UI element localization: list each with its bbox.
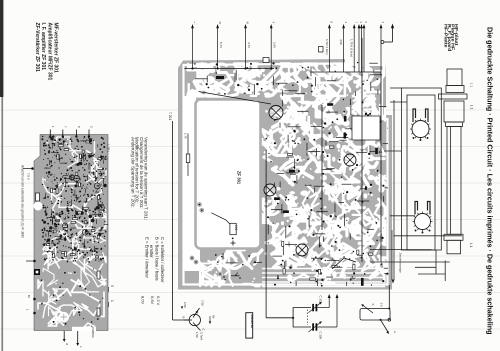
svg-text:Verandering van de spanning aa: Verandering van de spanning aan T 201:	[144, 137, 149, 220]
transistor outline on pcb at 270,190	[264, 184, 276, 196]
test point arrow 8 0,7V (1 kHz)	[328, 28, 330, 72]
trimmer capacitor C 301	[312, 304, 314, 311]
svg-text:141: 141	[234, 225, 238, 231]
test point arrow M 5,7V	[217, 28, 219, 69]
test point arrow 3	[358, 28, 360, 72]
svg-text:F6950A: F6950A	[91, 327, 95, 338]
tuning capacitor rotor L1	[415, 214, 431, 230]
fold artifact lines	[0, 109, 500, 111]
test point arrow 7 1,75 V (1 kHz)	[353, 28, 355, 72]
svg-text:ZW312 6A: ZW312 6A	[250, 315, 254, 330]
svg-text:1 1: 1 1	[470, 83, 474, 88]
bent arrow right	[392, 28, 394, 42]
svg-text:Ansicht von der Leiterseite au: Ansicht von der Leiterseite aus gesehen …	[21, 164, 25, 238]
svg-text:M: M	[246, 22, 250, 24]
svg-text:C 308: C 308	[319, 332, 323, 340]
black resistor bar top	[216, 76, 224, 79]
test point arrow =	[192, 28, 194, 69]
wire from pcb to cap box	[265, 270, 267, 318]
svg-text:T 201: T 201	[168, 112, 172, 120]
svg-text:1,75: 1,75	[183, 133, 187, 139]
svg-text:C = Kollektor / collecteur: C = Kollektor / collecteur	[160, 237, 165, 283]
small PCB left edge pads	[23, 168, 33, 170]
test point arrow 2	[380, 28, 382, 72]
svg-text:3: 3	[110, 285, 114, 287]
resistor on left margin of main pcb	[187, 134, 189, 177]
D301 box	[263, 58, 269, 63]
svg-text:L 1: L 1	[470, 105, 474, 110]
C301/C308 trimmer box	[293, 308, 311, 327]
svg-text:1,5V: 1,5V	[195, 332, 199, 338]
svg-text:I. F. amplifier ZF 301: I. F. amplifier ZF 301	[40, 23, 46, 71]
svg-text:5,7V: 5,7V	[219, 42, 223, 48]
svg-text:S: S	[371, 304, 375, 306]
long vertical overlay wires	[265, 150, 267, 270]
small PCB bottom arrows	[63, 331, 65, 340]
svg-text:8,0V: 8,0V	[141, 296, 146, 305]
test point arrow M 4,7V	[245, 28, 247, 69]
scan edge left	[0, 0, 3, 97]
small PCB right edge resistors	[97, 271, 100, 279]
svg-text:Modification of tension for T: Modification of tension for T 201:	[135, 137, 140, 203]
pin 8 of ZF301 board	[75, 130, 77, 137]
svg-text:B = Basis / base / basis: B = Basis / base / basis	[155, 237, 160, 281]
svg-text:L 1: L 1	[469, 243, 473, 248]
mechanical tuning drawing	[370, 69, 467, 281]
small box component near 329 arrow	[319, 47, 324, 53]
svg-text:M: M	[218, 22, 222, 24]
svg-text:MF-versterker ZF 301: MF-versterker ZF 301	[53, 23, 59, 74]
svg-text:0,5V: 0,5V	[183, 302, 187, 308]
svg-text:U: U	[65, 343, 69, 345]
switch S301	[360, 309, 390, 321]
svg-text:4,7V: 4,7V	[247, 42, 251, 48]
svg-text:B: B	[182, 317, 186, 319]
test point arrow	[361, 28, 363, 72]
svg-text:7,5 V: 7,5 V	[27, 173, 31, 180]
svg-text:Die gedruckte Schaltung · Prin: Die gedruckte Schaltung · Printed Circui…	[486, 27, 495, 335]
transistor outline on pcb at 302,250	[296, 244, 308, 256]
small PCB ZF301 board	[34, 135, 108, 338]
svg-text:1,75 V (1 kHz): 1,75 V (1 kHz)	[350, 39, 354, 57]
long wire left of main pcb	[172, 121, 174, 320]
bottom schematic: transistor T201	[189, 314, 200, 325]
test point arrow 5	[363, 28, 365, 72]
double line down arrow + label	[391, 230, 393, 280]
svg-text:0,3 V: 0,3 V	[156, 296, 161, 306]
tuning capacitor rotor L1	[412, 121, 429, 138]
svg-text:1-6: 1-6	[380, 303, 384, 307]
svg-text:emitter: emitter	[149, 245, 154, 258]
svg-text:0,7V (1 kHz): 0,7V (1 kHz)	[325, 39, 329, 55]
test point arrow 4 3,4V	[270, 28, 272, 69]
svg-text:5,6V: 5,6V	[150, 296, 155, 305]
pin 2 of ZF301 board	[88, 130, 90, 137]
pin 7 of ZF301 board	[62, 130, 64, 137]
svg-text:ZF-Verstärker ZF 301: ZF-Verstärker ZF 301	[34, 23, 40, 73]
svg-text:C: C	[202, 329, 206, 331]
svg-text:C 301: C 301	[319, 296, 323, 304]
test point arrow 1 4,5V	[343, 28, 345, 72]
svg-text:Amplificateur MF/ZF 301: Amplificateur MF/ZF 301	[46, 23, 52, 81]
sloped pointer line	[199, 92, 272, 105]
main PCB	[178, 59, 392, 290]
white window component top right	[352, 116, 380, 140]
svg-text:L 201: L 201	[107, 145, 111, 153]
svg-text:0,7mA: 0,7mA	[200, 332, 204, 340]
pin 1 of ZF301 board	[49, 130, 51, 137]
ZW312 6A box	[246, 313, 253, 338]
svg-text:ZF 301: ZF 301	[237, 171, 242, 185]
svg-text:Changement de la tension à T 2: Changement de la tension à T 201:	[139, 137, 144, 209]
svg-text:6V: 6V	[212, 315, 216, 319]
transistor outline on pcb at 350,160	[344, 154, 356, 166]
svg-text:3,4V: 3,4V	[273, 42, 277, 48]
svg-text:7,5V: 7,5V	[201, 300, 205, 306]
svg-text:Senderanzeige: Senderanzeige	[399, 253, 403, 274]
svg-text:1: 1	[110, 300, 114, 302]
141 box	[211, 213, 230, 224]
transistor outline on pcb at 276,112.5	[269, 106, 283, 120]
svg-text:4,5V: 4,5V	[339, 39, 343, 45]
trimmer capacitor C 308	[312, 323, 314, 330]
